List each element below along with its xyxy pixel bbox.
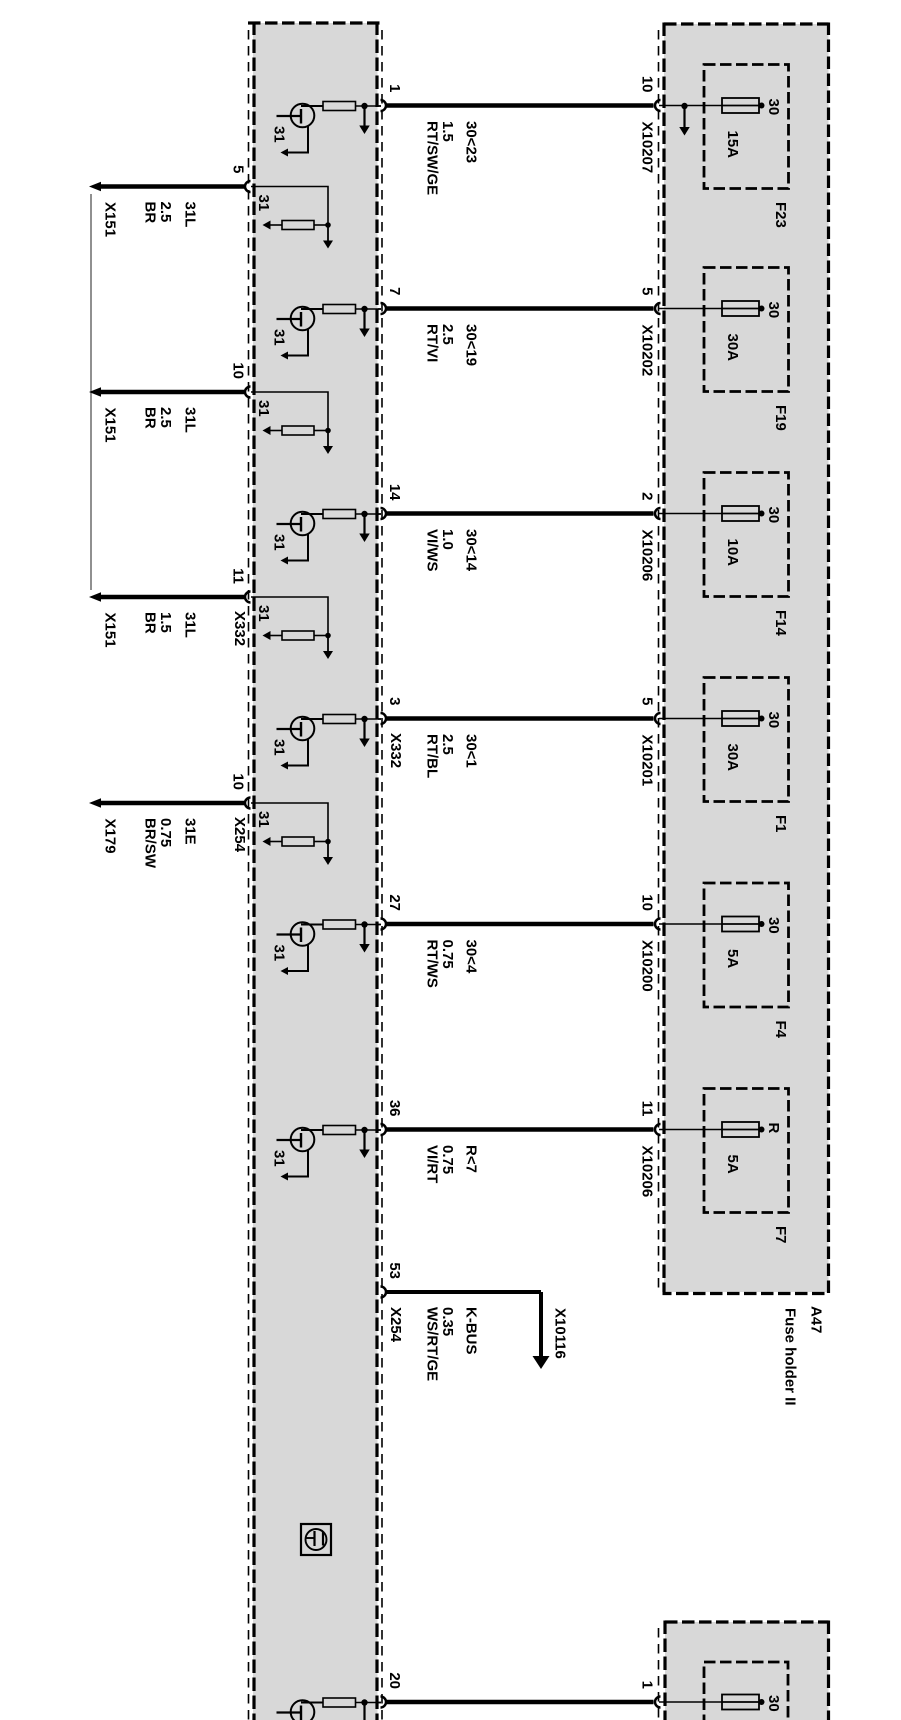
node line into ground band row 6: [378, 1129, 381, 1131]
resistor stub (left wire 5): [263, 221, 329, 230]
junction node row 8: [361, 1699, 367, 1705]
arrow to X151: [89, 182, 101, 192]
fuse F19 rating 30A: [724, 334, 741, 362]
svg-text:RT/WS: RT/WS: [424, 940, 441, 988]
fuse F23 rating 15A: [724, 131, 741, 159]
ground symbol 31 (circle splice) row 4: [277, 717, 324, 770]
svg-text:F23: F23: [772, 202, 789, 228]
wire K-BUS: [387, 1290, 541, 1294]
svg-text:2: 2: [639, 492, 656, 500]
wire label 30&lt;4 0.75 RT/WS: [424, 940, 480, 988]
svg-text:X151: X151: [102, 202, 119, 237]
fuse holder II band label A47: [782, 1306, 825, 1406]
ground wire path (pin 11): [251, 597, 328, 636]
ground wire path (pin 10): [251, 392, 328, 431]
wire label R&lt;7 0.75 VI/RT: [424, 1145, 480, 1183]
svg-text:F19: F19: [772, 405, 789, 431]
svg-text:X10201: X10201: [639, 735, 656, 787]
wire label 31L 2.5 BR: [142, 407, 199, 433]
ground label 31 row 6: [271, 1150, 288, 1167]
svg-text:1.5: 1.5: [439, 121, 456, 142]
connector label X10206: [639, 1146, 656, 1198]
ground wire 1: 31L to X151: [99, 184, 245, 189]
fuse F4 terminal label 30: [765, 917, 782, 934]
fuse holder A47 band (gray): [659, 23, 829, 1294]
svg-text:BR: BR: [142, 202, 159, 224]
pin 10 left wire 2: [230, 362, 247, 379]
pin 2 row 3: [639, 492, 656, 500]
fuse F7 rating 5A: [724, 1155, 741, 1174]
connector cup ground side row 2: [381, 303, 387, 314]
ground distribution band (gray): [248, 22, 382, 1720]
fuse F19 element: [659, 301, 765, 316]
svg-text:30: 30: [765, 302, 782, 319]
svg-text:5: 5: [639, 697, 656, 705]
svg-text:14: 14: [386, 484, 403, 501]
second fuse holder band (bottom): [659, 1621, 829, 1720]
arrow to X10116: [533, 1292, 550, 1369]
svg-text:0.75: 0.75: [439, 1145, 456, 1174]
fuse F1 dashed box: [704, 678, 789, 802]
pin 10 row 1: [639, 76, 656, 93]
ground continuation arrow (left wire 5): [323, 227, 333, 249]
resistor element row 4: [323, 715, 381, 724]
connector cup fuse side row 5: [655, 919, 661, 930]
fuse F19 terminal label 30: [765, 302, 782, 319]
pin 5 row 4: [639, 697, 656, 705]
svg-text:F4: F4: [772, 1021, 789, 1039]
junction node row 5: [361, 921, 367, 927]
pin 27 row 5: [386, 894, 403, 911]
continuation arrow row 8: [359, 1705, 370, 1720]
ground label 31 row 4: [271, 739, 288, 756]
continuation arrow fuse side row 1: [679, 109, 690, 136]
connector cup left edge (pin 10): [245, 798, 251, 809]
connector cup fuse side row 6: [655, 1124, 661, 1135]
ground label 31 (left wire 5): [255, 195, 272, 212]
ground wire 2: 31L to X151: [99, 390, 245, 395]
svg-text:BR/SW: BR/SW: [142, 818, 159, 869]
fuse F7 element: [659, 1122, 765, 1137]
fuse bottom element: [659, 1695, 765, 1710]
node line into ground band row 5: [378, 924, 381, 926]
svg-text:31: 31: [271, 329, 288, 346]
svg-text:31L: 31L: [182, 407, 199, 433]
svg-text:3: 3: [386, 697, 403, 705]
svg-text:BR: BR: [142, 612, 159, 634]
ground label 31 row 2: [271, 329, 288, 346]
svg-text:11: 11: [639, 1101, 656, 1117]
continuation arrow row 4: [359, 722, 370, 748]
svg-text:1.0: 1.0: [439, 529, 456, 550]
svg-text:X10202: X10202: [639, 325, 656, 377]
svg-text:30: 30: [765, 1695, 782, 1712]
pin 53: [386, 1262, 403, 1279]
ground label 31 row 5: [271, 945, 288, 962]
svg-text:10A: 10A: [724, 539, 741, 567]
wire row 4: RT/BL: [387, 716, 654, 721]
wire label 30&lt;19 2.5 RT/VI: [424, 324, 480, 366]
svg-text:10: 10: [639, 894, 656, 911]
ground symbol 31 (circle splice) row 3: [277, 512, 324, 565]
fuse F7 terminal label R: [765, 1123, 782, 1134]
connector label X10201: [639, 735, 656, 787]
resistor element row 6: [323, 1126, 381, 1135]
svg-text:X179: X179: [102, 819, 119, 854]
connector bracket line X151: [90, 194, 92, 590]
destination label X151: [102, 613, 119, 648]
fuse name F4: [772, 1021, 789, 1039]
fuse F4 rating 5A: [724, 949, 741, 968]
connector label X10116: [552, 1308, 569, 1359]
connector cup fuse side row 3: [655, 508, 661, 519]
node line into ground band row 4: [378, 718, 381, 720]
resistor element row 3: [323, 510, 381, 519]
fuse F1 terminal label 30: [765, 712, 782, 729]
svg-text:X254: X254: [231, 817, 248, 853]
fuse name F23: [772, 202, 789, 228]
svg-text:31: 31: [271, 126, 288, 143]
svg-text:X332: X332: [387, 733, 404, 768]
svg-text:X10116: X10116: [552, 1308, 569, 1359]
resistor stub (left wire 10): [263, 426, 329, 435]
ground continuation arrow (left wire 10): [323, 433, 333, 455]
connector cup left edge (pin 5): [245, 181, 251, 192]
svg-text:30A: 30A: [724, 744, 741, 772]
svg-text:31: 31: [271, 1150, 288, 1167]
svg-text:10: 10: [230, 773, 247, 790]
svg-text:1: 1: [639, 1681, 656, 1689]
svg-text:31: 31: [271, 945, 288, 962]
svg-text:0.35: 0.35: [439, 1307, 456, 1336]
svg-text:2.5: 2.5: [157, 202, 174, 223]
wire label 31L 1.5 BR: [142, 612, 199, 638]
svg-text:30<1: 30<1: [463, 734, 480, 768]
svg-text:X151: X151: [102, 613, 119, 648]
connector label X332: [231, 611, 248, 646]
pin 20 row 8: [386, 1672, 403, 1689]
fuse name F1: [772, 815, 789, 833]
junction node row 3: [361, 511, 367, 517]
connector cup ground side row 6: [381, 1124, 387, 1135]
ground wire 3: 31L to X151: [99, 595, 245, 600]
svg-text:30: 30: [765, 712, 782, 729]
svg-text:Fuse holder II: Fuse holder II: [782, 1308, 799, 1406]
svg-text:30<19: 30<19: [463, 324, 480, 366]
ground label 31 (left wire 10): [255, 811, 272, 828]
connector label X10200: [639, 940, 656, 992]
fuse F23 terminal label 30: [765, 99, 782, 116]
svg-text:1: 1: [386, 84, 403, 92]
ground label 31 (left wire 11): [255, 605, 272, 622]
pin 7 row 2: [386, 287, 403, 295]
wire row 6: VI/RT: [387, 1127, 654, 1132]
svg-text:F1: F1: [772, 815, 789, 833]
ground symbol 31 (circle splice) row 2: [277, 307, 324, 360]
svg-text:30: 30: [765, 99, 782, 116]
connector cup fuse side row 4: [655, 713, 661, 724]
resistor stub (left wire 11): [263, 631, 329, 640]
svg-text:53: 53: [386, 1262, 403, 1279]
connector label X254: [231, 817, 248, 853]
fuse F14 element: [659, 506, 765, 521]
junction node (left wire 10): [325, 428, 331, 434]
junction node (left wire 11): [325, 633, 331, 639]
svg-text:X10206: X10206: [639, 1146, 656, 1198]
continuation arrow row 5: [359, 927, 370, 953]
svg-text:36: 36: [386, 1100, 403, 1117]
svg-text:0.75: 0.75: [439, 940, 456, 969]
svg-text:2.5: 2.5: [439, 324, 456, 345]
connector cup ground side row 5: [381, 919, 387, 930]
wire row 8: [387, 1700, 654, 1705]
continuation arrow row 2: [359, 312, 370, 338]
svg-text:VI/WS: VI/WS: [424, 529, 441, 572]
svg-text:31: 31: [255, 400, 272, 417]
continuation arrow row 3: [359, 517, 370, 543]
svg-text:5: 5: [230, 165, 247, 173]
wire label 30&lt;14 1.0 VI/WS: [424, 529, 480, 572]
svg-text:X151: X151: [102, 408, 119, 443]
fuse name F7: [772, 1226, 789, 1244]
connector cup fuse side row 2: [655, 303, 661, 314]
connector cup fuse side row 1: [655, 100, 661, 111]
wire row 5: RT/WS: [387, 922, 654, 927]
ground label 31 row 3: [271, 534, 288, 551]
node line into ground band row 1: [378, 105, 381, 107]
ground wire path (pin 5): [251, 187, 328, 226]
wire row 2: RT/VI: [387, 306, 654, 311]
resistor element row 2: [323, 305, 381, 314]
node line into ground band row 8: [378, 1702, 381, 1704]
svg-text:F7: F7: [772, 1226, 789, 1244]
fuse name F19: [772, 405, 789, 431]
svg-text:5A: 5A: [724, 1155, 741, 1174]
svg-text:31: 31: [271, 534, 288, 551]
connector cup ground side row 4: [381, 713, 387, 724]
svg-text:X332: X332: [231, 611, 248, 646]
connector cup ground side row 8: [381, 1697, 387, 1708]
wire row 3: VI/WS: [387, 511, 654, 516]
node line into ground band row 2: [378, 308, 381, 310]
resistor stub (left wire 10): [263, 837, 329, 846]
fuse F19 dashed box: [704, 268, 789, 392]
svg-text:30<23: 30<23: [463, 121, 480, 163]
svg-text:VI/RT: VI/RT: [424, 1145, 441, 1183]
pin 11 row 6: [639, 1101, 656, 1117]
junction node (left wire 5): [325, 222, 331, 228]
node line into ground band row 3: [378, 513, 381, 515]
svg-text:15A: 15A: [724, 131, 741, 159]
pin 14 row 3: [386, 484, 403, 501]
pin 5 row 2: [639, 287, 656, 295]
fuse F7 dashed box: [704, 1089, 789, 1213]
fuse F23 dashed box: [704, 65, 789, 189]
destination label X179: [102, 819, 119, 854]
svg-text:X10206: X10206: [639, 530, 656, 582]
svg-text:31: 31: [271, 739, 288, 756]
svg-text:R<7: R<7: [463, 1145, 480, 1173]
connector cup ground side row 3: [381, 508, 387, 519]
fuse name F14: [772, 610, 789, 637]
pin 10 row 5: [639, 894, 656, 911]
junction node fuse side row 1: [681, 103, 687, 109]
pin 1 row 8: [639, 1681, 656, 1689]
svg-text:30: 30: [765, 917, 782, 934]
svg-text:R: R: [765, 1123, 782, 1134]
resistor element row 5: [323, 920, 381, 929]
svg-text:27: 27: [386, 894, 403, 911]
svg-text:30A: 30A: [724, 334, 741, 362]
svg-text:5: 5: [639, 287, 656, 295]
connector cup left edge (pin 11): [245, 592, 251, 603]
connector label X10206: [639, 530, 656, 582]
fuse F4 element: [659, 917, 765, 932]
svg-text:31L: 31L: [182, 612, 199, 638]
ground wire 4: 31E to X179: [99, 801, 245, 806]
connector cup ground side row 1: [381, 100, 387, 111]
fuse F14 rating 10A: [724, 539, 741, 567]
svg-text:7: 7: [386, 287, 403, 295]
resistor element row 8: [323, 1698, 381, 1707]
fuse F4 dashed box: [704, 883, 789, 1007]
fuse F1 rating 30A: [724, 744, 741, 772]
ground label 31 (left wire 10): [255, 400, 272, 417]
fuse F1 element: [659, 711, 765, 726]
ground symbol 31 (circle splice) row 6: [277, 1128, 324, 1181]
fuse F23 element: [659, 98, 765, 113]
svg-text:30<14: 30<14: [463, 529, 480, 572]
svg-text:RT/VI: RT/VI: [424, 324, 441, 362]
svg-text:A47: A47: [808, 1306, 825, 1334]
connector label X10207: [639, 122, 656, 174]
ground wire path (pin 10): [251, 803, 328, 842]
pin 3 row 4: [386, 697, 403, 705]
svg-text:31L: 31L: [182, 202, 199, 228]
continuation arrow row 6: [359, 1133, 370, 1159]
connector cup K-BUS (pin 53): [381, 1287, 387, 1298]
svg-text:WS/RT/GE: WS/RT/GE: [424, 1307, 441, 1381]
svg-text:30<4: 30<4: [463, 940, 480, 974]
arrow to X151: [89, 387, 101, 397]
wire label 31L 2.5 BR: [142, 202, 199, 228]
svg-text:0.75: 0.75: [157, 818, 174, 847]
junction node row 1: [361, 103, 367, 109]
connector label X10202: [639, 325, 656, 377]
svg-text:20: 20: [386, 1672, 403, 1689]
pin 36 row 6: [386, 1100, 403, 1117]
junction node row 4: [361, 716, 367, 722]
ground symbol 31 (circle splice) row 8: [277, 1700, 324, 1720]
ground label 31 row 1: [271, 126, 288, 143]
svg-text:X254: X254: [387, 1307, 404, 1343]
svg-text:31E: 31E: [182, 818, 199, 845]
destination label X151: [102, 202, 119, 237]
wire label 30&lt;1 2.5 RT/BL: [424, 734, 480, 778]
destination label X151: [102, 408, 119, 443]
junction node row 2: [361, 306, 367, 312]
svg-text:BR: BR: [142, 407, 159, 429]
wire label 31E 0.75 BR/SW: [142, 818, 199, 869]
ground continuation arrow (left wire 10): [323, 844, 333, 866]
pin 10 left wire 4: [230, 773, 247, 790]
connector cup left edge (pin 10): [245, 387, 251, 398]
svg-text:10: 10: [639, 76, 656, 93]
pin 5 left wire 1: [230, 165, 247, 173]
svg-text:30: 30: [765, 507, 782, 524]
fuse F14 terminal label 30: [765, 507, 782, 524]
connector cup fuse side row 8: [655, 1697, 661, 1708]
resistor element row 1: [323, 102, 381, 111]
junction node row 6: [361, 1127, 367, 1133]
fuse bottom terminal label 30: [765, 1695, 782, 1712]
fuse box row 8: [704, 1662, 788, 1720]
svg-text:1.5: 1.5: [157, 612, 174, 633]
svg-text:2.5: 2.5: [439, 734, 456, 755]
wire label K-BUS 0.35 WS/RT/GE: [424, 1307, 480, 1381]
fuse F14 dashed box: [704, 473, 789, 597]
arrow to X151: [89, 592, 101, 602]
connector label X254: [387, 1307, 404, 1343]
connector label X332: [387, 733, 404, 768]
junction node (left wire 10): [325, 839, 331, 845]
svg-text:2.5: 2.5: [157, 407, 174, 428]
svg-text:RT/BL: RT/BL: [424, 734, 441, 778]
svg-text:31: 31: [255, 195, 272, 212]
pin 11 left wire 3: [230, 568, 247, 584]
svg-text:11: 11: [230, 568, 247, 584]
component location icon: [301, 1524, 331, 1555]
svg-text:X10207: X10207: [639, 122, 656, 174]
ground symbol 31 (circle splice) row 1: [277, 104, 324, 157]
svg-text:K-BUS: K-BUS: [463, 1307, 480, 1355]
svg-text:RT/SW/GE: RT/SW/GE: [424, 121, 441, 195]
wire row 1: RT/SW/GE: [387, 103, 654, 108]
svg-text:F14: F14: [772, 610, 789, 637]
svg-text:31: 31: [255, 605, 272, 622]
ground continuation arrow (left wire 11): [323, 638, 333, 660]
wire label 30&lt;23 1.5 RT/SW/GE: [424, 121, 480, 195]
arrow to X179: [89, 798, 101, 808]
pin 1 row 1: [386, 84, 403, 92]
svg-text:5A: 5A: [724, 949, 741, 968]
continuation arrow row 1: [359, 109, 370, 135]
svg-text:X10200: X10200: [639, 940, 656, 992]
svg-text:31: 31: [255, 811, 272, 828]
ground symbol 31 (circle splice) row 5: [277, 922, 324, 975]
svg-text:10: 10: [230, 362, 247, 379]
